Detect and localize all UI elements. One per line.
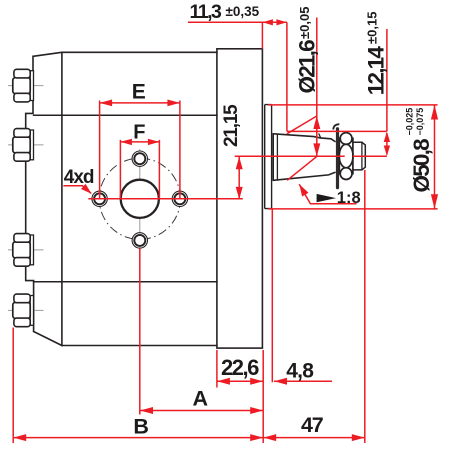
svg-text:−0,025: −0,025: [404, 108, 414, 136]
bolt 2 centerline: [8, 144, 44, 146]
bolt 2: [13, 129, 34, 162]
shaft centerline: [235, 155, 387, 157]
gear shaft bore (big circle): [121, 180, 159, 218]
pump body outline: [62, 52, 217, 345]
rear cover / body joint line: [61, 52, 63, 345]
mounting hole top: [132, 151, 147, 166]
svg-text:Ø21,6: Ø21,6: [294, 40, 319, 94]
arrows 21,15: [236, 157, 243, 170]
bolt 3: [13, 234, 34, 267]
dimension B lines: [13, 328, 263, 444]
svg-text:47: 47: [301, 413, 324, 437]
front mounting flange plate: [217, 49, 263, 348]
svg-text:A: A: [193, 387, 209, 411]
mounting hole left: [92, 191, 107, 206]
bolt circle (dash-dot): [99, 158, 180, 239]
arrows B: [13, 434, 26, 441]
dimension 4,8 lines: [272, 209, 332, 382]
taper symbol: [317, 194, 336, 202]
dimension F lines: [120, 140, 159, 199]
shaft nut: [339, 133, 353, 180]
bolt 1 centerline: [8, 85, 44, 87]
svg-text:1:8: 1:8: [337, 189, 361, 207]
svg-text:±0,35: ±0,35: [226, 4, 260, 19]
dimension E lines: [100, 101, 180, 199]
bolt 4 centerline: [8, 309, 44, 311]
bolt 1: [13, 69, 34, 102]
arrows E: [100, 100, 113, 107]
arrows A: [140, 407, 153, 414]
svg-text:±0,05: ±0,05: [297, 7, 312, 39]
svg-text:21,15: 21,15: [221, 104, 242, 147]
body section divider line lower: [34, 281, 217, 283]
dimension 12,14 lines: [386, 29, 388, 155]
svg-text:4,8: 4,8: [286, 360, 314, 383]
dimension 47 lines: [263, 170, 365, 443]
svg-text:22,6: 22,6: [221, 355, 259, 380]
dimension A lines: [140, 248, 263, 414]
arrow 4xd: [81, 184, 92, 194]
rear cover plate outline: [26, 52, 62, 345]
svg-text:F: F: [133, 121, 145, 143]
tapered drive shaft: [273, 134, 335, 181]
mounting hole bottom: [132, 233, 147, 248]
dimension Ø50,8 lines: [268, 105, 438, 209]
svg-text:4xd: 4xd: [64, 167, 94, 188]
arrows 47: [263, 434, 276, 441]
hole pattern horizontal centerline: [88, 198, 243, 200]
dimension 21,15 line: [238, 157, 240, 199]
threaded shaft end: [353, 142, 365, 170]
body section divider line upper: [34, 114, 217, 116]
bolt 3 centerline: [8, 249, 44, 251]
tab washer: [336, 127, 339, 189]
svg-text:E: E: [132, 80, 146, 103]
bolt 4: [13, 294, 34, 327]
mounting hole right: [172, 191, 187, 206]
arrow 4,8: [274, 378, 287, 385]
arrows Ø50,8: [431, 105, 438, 120]
arrows Ø21,6: [313, 116, 320, 129]
svg-text:±0,15: ±0,15: [365, 12, 380, 44]
keyway end tick: [319, 134, 321, 138]
svg-text:11,3: 11,3: [190, 1, 223, 23]
svg-text:B: B: [133, 415, 149, 439]
hole-pattern centerline vertical (gray): [139, 149, 141, 249]
arrows 12,14: [384, 132, 390, 142]
4xd leader line: [63, 186, 91, 194]
arrows 11,3: [262, 19, 273, 25]
arrow 1:8 leader: [299, 184, 308, 196]
svg-text:Ø50,8: Ø50,8: [409, 139, 434, 193]
arrows F: [120, 139, 131, 145]
dimension Ø21,6 lines: [287, 18, 317, 181]
pilot rim plate: [265, 105, 272, 209]
svg-text:12,14: 12,14: [364, 46, 389, 96]
dimension 11,3 lines: [188, 22, 287, 131]
taper 1:8 leader line: [299, 184, 356, 203]
svg-text:−0,075: −0,075: [415, 108, 425, 136]
tab washer bent tab: [333, 124, 339, 129]
dimension 22,6 lines: [217, 350, 263, 443]
key top extension line: [287, 130, 387, 132]
arrows 22,6: [217, 378, 230, 385]
